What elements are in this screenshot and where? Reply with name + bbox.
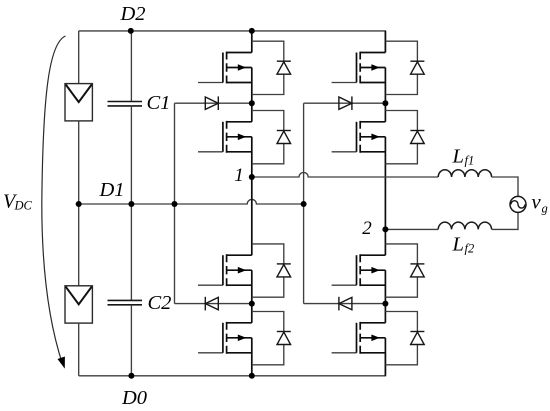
svg-text:L: L [452,234,464,256]
svg-text:f1: f1 [465,154,475,168]
svg-text:v: v [532,192,542,214]
svg-text:2: 2 [362,218,372,239]
svg-text:DC: DC [14,199,33,213]
svg-text:C1: C1 [147,92,171,114]
svg-text:L: L [452,146,464,168]
svg-text:D1: D1 [98,179,124,201]
svg-text:D2: D2 [119,3,145,25]
svg-text:g: g [542,202,548,216]
svg-text:1: 1 [234,165,244,186]
svg-text:C2: C2 [148,292,172,314]
svg-text:D0: D0 [121,387,147,406]
svg-text:f2: f2 [465,242,475,256]
